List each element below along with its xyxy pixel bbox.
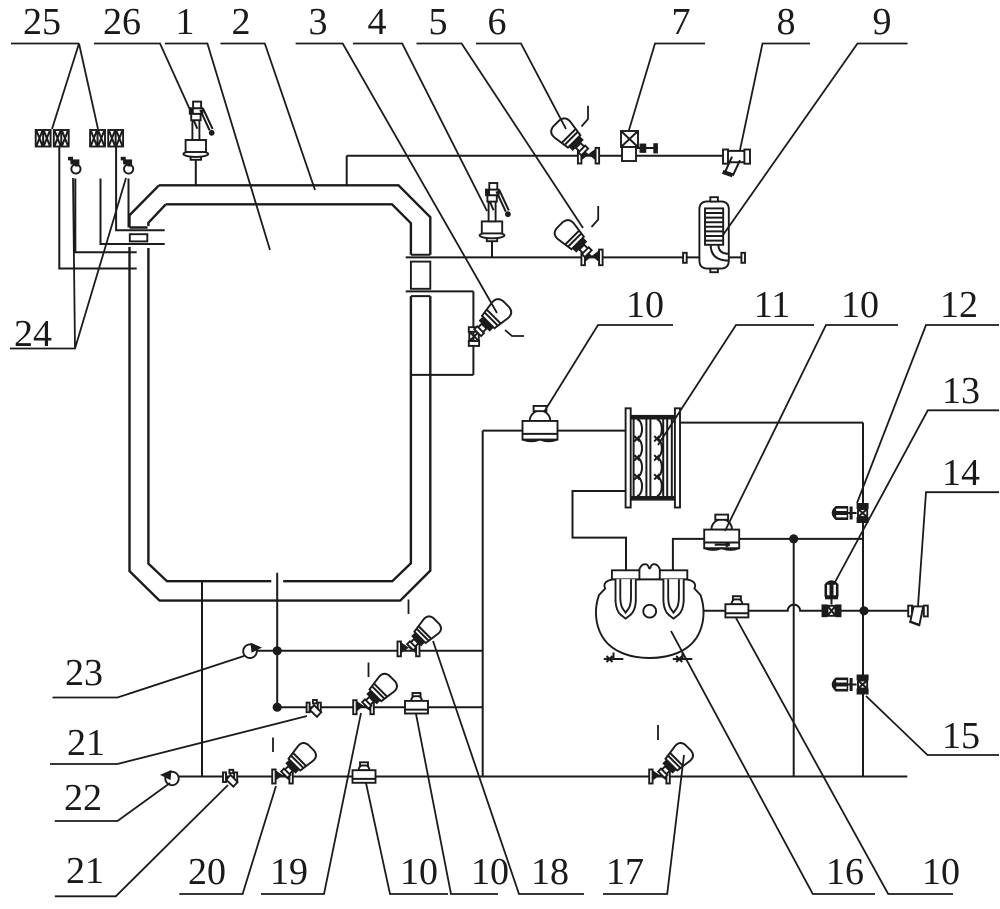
pilot tick valve 3 (505, 330, 524, 336)
svg-text:15: 15 (942, 715, 980, 757)
svg-text:18: 18 (531, 851, 569, 893)
svg-text:10: 10 (841, 284, 879, 326)
svg-text:21: 21 (67, 722, 105, 764)
angle valve 17 (649, 740, 695, 783)
hand valve 13 (822, 580, 842, 617)
pilot tick valve 19 (368, 663, 370, 678)
wire pipe P3 y=776.5 (165, 776, 907, 778)
solenoid valve 7 (621, 131, 658, 161)
heat exchanger 11 (626, 408, 680, 507)
check valve 10d (353, 762, 376, 783)
check valve 10e (725, 596, 748, 617)
junction dot P4 (859, 606, 868, 615)
tank left wall nozzle plate (130, 234, 148, 241)
junction dot P2 (273, 703, 282, 712)
wire jacket loop lower (411, 374, 474, 376)
angle valve 18 (398, 614, 444, 657)
svg-text:6: 6 (488, 1, 507, 43)
svg-text:20: 20 (188, 851, 226, 893)
svg-text:1: 1 (176, 1, 195, 43)
angle valve 3 on jacket loop (469, 296, 514, 346)
sight ball 23 (243, 643, 262, 658)
svg-text:3: 3 (309, 1, 328, 43)
wire safety valve 4 stem (491, 241, 493, 257)
wire upper pipe to tank top (346, 156, 348, 186)
check valve 10c (405, 693, 428, 714)
hand valve 12 (832, 503, 869, 523)
svg-text:10: 10 (400, 851, 438, 893)
junction dot P1 (273, 646, 282, 655)
wire sensor A line (75, 179, 136, 253)
tank right wall nozzle box (411, 262, 430, 289)
sensor 24b (121, 157, 134, 174)
svg-text:19: 19 (270, 851, 308, 893)
drain valve 21b (223, 770, 238, 787)
safety valve 4 (480, 183, 511, 241)
wire heat-exchanger right pipe y=422.6 (680, 422, 863, 424)
wire pipe P1 y=650.8 (250, 650, 483, 652)
wire jacket loop upper (406, 290, 474, 292)
wire check-valve pipe y=430.6 (483, 430, 626, 432)
wire tank bottom-left drain (201, 581, 203, 776)
svg-text:14: 14 (942, 452, 980, 494)
svg-text:26: 26 (103, 1, 141, 43)
svg-text:21: 21 (66, 850, 104, 892)
svg-text:7: 7 (672, 1, 691, 43)
Y-strainer 8 (722, 150, 750, 178)
wire upper pipe y=155.7 (347, 155, 723, 157)
svg-text:23: 23 (65, 652, 103, 694)
wire sensor B stem (128, 179, 130, 228)
svg-text:12: 12 (940, 284, 978, 326)
sensor 24a (68, 157, 81, 174)
svg-text:4: 4 (368, 1, 387, 43)
tank right wall gap caps (411, 255, 430, 296)
pilot tick valve 6 (582, 106, 589, 127)
pump 16 (596, 564, 704, 662)
pilot tick valve 5 (592, 206, 599, 227)
pilot tick valve 20 (272, 738, 274, 753)
wire pipe P2 y=707.2 (277, 706, 483, 708)
svg-text:8: 8 (777, 1, 796, 43)
tank 1 inner shell (148, 204, 411, 581)
svg-text:10: 10 (626, 284, 664, 326)
tank 1 outer shell (130, 185, 431, 600)
wire safety valve 26 stem (195, 160, 197, 186)
wire mid riser x=793.7 (793, 539, 795, 777)
wire instrument box A line (59, 147, 136, 269)
wire nozzle line y=244 (101, 179, 165, 245)
wire right riser x=863 (862, 423, 864, 777)
svg-text:13: 13 (942, 370, 980, 412)
outlet fitting 14 (908, 606, 928, 626)
pilot tick valve 17 (657, 725, 659, 740)
drain valve 21a (307, 700, 322, 717)
svg-text:11: 11 (754, 284, 791, 326)
wire pipe 10b to right riser y=538.9 (739, 538, 863, 540)
wire jacket loop vertical (472, 291, 474, 375)
wire second pipe y=257.4 (406, 256, 684, 258)
safety valve 26 (183, 102, 214, 160)
svg-text:2: 2 (232, 1, 251, 43)
check valve 10b (704, 515, 739, 550)
instrument box 25b (90, 130, 123, 147)
angle valve 19 (353, 671, 399, 714)
svg-text:9: 9 (873, 1, 892, 43)
svg-text:16: 16 (826, 851, 864, 893)
svg-text:5: 5 (429, 1, 448, 43)
sight ball 22 (160, 770, 179, 785)
hand valve 15 (832, 675, 869, 695)
svg-text:25: 25 (23, 1, 61, 43)
svg-text:10: 10 (922, 851, 960, 893)
wire pump discharge P4 y=610.8 with crossing hop (656, 605, 908, 611)
pilot tick valve 18 (408, 600, 410, 615)
wire left riser x=482.7 (482, 431, 484, 777)
angle valve 6 (548, 116, 599, 164)
svg-text:17: 17 (606, 851, 644, 893)
angle valve 20 (272, 740, 318, 783)
filter 9 (683, 197, 745, 272)
check valve 10a (523, 406, 558, 441)
instrument box 25a (36, 130, 69, 147)
angle valve 5 (552, 217, 603, 265)
wire instrument box B line (116, 147, 165, 230)
wire pump right riser (673, 539, 705, 571)
junction dot pipe y=538.9 (789, 534, 798, 543)
svg-text:22: 22 (64, 777, 102, 819)
wire staircase HX to pump inlet (573, 491, 627, 571)
wire tank bottom-center drain (276, 573, 278, 708)
svg-text:10: 10 (471, 851, 509, 893)
